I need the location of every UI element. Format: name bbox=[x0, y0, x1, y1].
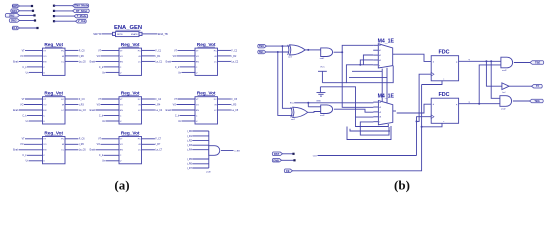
svg-text:t_R0: t_R0 bbox=[187, 130, 193, 133]
net label La_C2 U3 bbox=[231, 61, 238, 63]
svg-text:VO: VO bbox=[20, 144, 24, 146]
wire AND8 input 6 bbox=[192, 158, 209, 160]
svg-text:VO: VO bbox=[97, 104, 101, 106]
caption (a) bbox=[114, 177, 129, 192]
svg-text:e: e bbox=[379, 65, 380, 67]
svg-text:F_C2: F_C2 bbox=[231, 50, 237, 52]
wire input VT U8 bbox=[102, 138, 120, 140]
svg-text:LC: LC bbox=[61, 110, 64, 112]
svg-text:t_R2: t_R2 bbox=[187, 139, 193, 142]
svg-text:EN: EN bbox=[43, 110, 46, 112]
power VCC bbox=[318, 66, 327, 82]
svg-text:FC: FC bbox=[61, 50, 64, 52]
wire input VT U4 bbox=[25, 98, 43, 100]
wire input Enab U2 bbox=[96, 60, 120, 62]
wire XOR1 out bbox=[305, 49, 321, 51]
wire MUX2 s0 loop bbox=[356, 117, 389, 126]
svg-text:VO: VO bbox=[43, 104, 46, 106]
svg-text:LC: LC bbox=[214, 110, 217, 112]
svg-text:TB1: TB1 bbox=[259, 50, 264, 54]
wire input VO U3 bbox=[177, 55, 196, 57]
svg-text:La_C2: La_C2 bbox=[231, 61, 238, 63]
svg-text:F_C7: F_C7 bbox=[155, 139, 161, 141]
net label C_k U5 bbox=[99, 115, 104, 117]
wire input Un U8 bbox=[106, 160, 120, 162]
svg-text:t_R2: t_R2 bbox=[231, 55, 237, 58]
wire from IPAD3 bbox=[20, 14, 35, 16]
wire MUX1 loop box bbox=[346, 65, 393, 83]
svg-text:LC: LC bbox=[138, 110, 141, 112]
wire output La_C4 U5 bbox=[142, 109, 155, 111]
wire branch to BUF bbox=[486, 61, 502, 86]
wire input VT U3 bbox=[178, 49, 196, 51]
net label t_R0 bbox=[187, 130, 193, 133]
component M4_1E U_M2 body bbox=[378, 101, 392, 125]
svg-text:GND: GND bbox=[316, 101, 321, 103]
svg-text:La_C1: La_C1 bbox=[155, 61, 162, 63]
output pin OPAD2 RT_NOut bbox=[73, 9, 90, 13]
svg-text:Reg_Vot: Reg_Vot bbox=[121, 91, 140, 96]
svg-text:(a): (a) bbox=[114, 177, 129, 192]
wire FDC1 Q bbox=[459, 60, 501, 62]
wire input Un U6 bbox=[182, 120, 196, 122]
svg-text:Reg_Vot: Reg_Vot bbox=[121, 130, 140, 135]
net label VT U4 bbox=[22, 99, 26, 101]
net label Enab U4 bbox=[13, 110, 19, 112]
net label t_R6 U7 bbox=[79, 143, 85, 146]
svg-text:Reg_Vot: Reg_Vot bbox=[197, 42, 216, 47]
wire MUX1 bottom port A down bbox=[381, 69, 383, 102]
net label VT U7 bbox=[22, 139, 26, 141]
svg-text:FC: FC bbox=[61, 139, 64, 141]
net terminal square CLK bbox=[36, 27, 38, 29]
svg-text:VO: VO bbox=[120, 104, 123, 106]
wire output t_R7 U8 bbox=[142, 143, 155, 145]
net label Enab U7 bbox=[13, 150, 19, 152]
net label o_BB bbox=[234, 150, 240, 152]
svg-text:o_BB: o_BB bbox=[234, 150, 240, 152]
output pin OPAD1 ENA_Mode bbox=[73, 4, 89, 8]
wire output F_C5 U6 bbox=[218, 98, 231, 100]
input pin IPAD1 SW0 bbox=[12, 4, 19, 8]
svg-text:LC: LC bbox=[138, 61, 141, 63]
wire output F_C7 U8 bbox=[142, 138, 155, 140]
wire TB0 down bbox=[282, 46, 292, 108]
net label F_C3 U4 bbox=[79, 99, 85, 101]
svg-text:VO: VO bbox=[120, 144, 123, 146]
wire input VO U5 bbox=[101, 104, 120, 106]
wire input Enab U7 bbox=[19, 149, 43, 151]
svg-text:V_Out: V_Out bbox=[78, 19, 86, 23]
net label C_k U6 bbox=[175, 115, 180, 117]
wire from IPAD2 bbox=[20, 10, 34, 12]
wire MUX2 inner loop bbox=[350, 129, 390, 131]
wire MUX1 inner B bbox=[349, 77, 387, 79]
component Reg_Vot U8 body bbox=[119, 137, 142, 164]
svg-text:LC: LC bbox=[61, 61, 64, 63]
net label t_R3 bbox=[187, 144, 193, 147]
wire AND8 input 8 bbox=[192, 167, 209, 169]
net label VO U4 bbox=[20, 104, 24, 106]
input pin RST bbox=[272, 152, 282, 156]
component ENA_GEN label bbox=[114, 25, 142, 31]
svg-text:FC: FC bbox=[214, 99, 217, 101]
svg-text:NRTB: NRTB bbox=[117, 34, 123, 36]
net label VT U3 bbox=[174, 50, 178, 52]
svg-text:Enab: Enab bbox=[166, 110, 172, 112]
svg-text:buf: buf bbox=[503, 92, 506, 94]
net label t_R4 bbox=[187, 149, 193, 152]
svg-text:t_R1: t_R1 bbox=[155, 55, 161, 58]
wire TB1 down bbox=[278, 52, 293, 115]
svg-text:Enab: Enab bbox=[166, 61, 172, 63]
svg-text:ENATB: ENATB bbox=[131, 33, 138, 36]
junction MUX1 loop bbox=[359, 64, 361, 66]
svg-text:M4_1E: M4_1E bbox=[378, 94, 395, 100]
net label F_C2 U3 bbox=[231, 50, 237, 52]
Reg_Vot U7 pin names bbox=[43, 139, 64, 163]
wire input Un U4 bbox=[29, 120, 43, 122]
gate AND3 name bbox=[502, 70, 507, 72]
svg-text:LC: LC bbox=[61, 150, 64, 152]
net label t_R3 U4 bbox=[79, 103, 85, 106]
output pin LED2 bbox=[530, 99, 544, 103]
svg-text:t_R7: t_R7 bbox=[155, 143, 161, 146]
svg-text:t_R5: t_R5 bbox=[187, 158, 193, 161]
component Reg_Vot U6 body bbox=[195, 97, 218, 124]
svg-text:SW1: SW1 bbox=[12, 9, 18, 13]
svg-text:RT_NOut: RT_NOut bbox=[76, 9, 87, 13]
input pin TB1 bbox=[258, 50, 266, 54]
gate AND2 bbox=[321, 105, 333, 114]
svg-text:SW7 B: SW7 B bbox=[93, 33, 101, 36]
wire input VT U6 bbox=[178, 98, 196, 100]
wire VCC to MUX1 loop bbox=[322, 82, 346, 84]
net label VT U5 bbox=[98, 99, 102, 101]
component Reg_Vot U5 label bbox=[121, 91, 140, 96]
svg-text:EN: EN bbox=[196, 110, 199, 112]
wire output F_C0 U1 bbox=[65, 49, 78, 51]
net label Enab U6 bbox=[166, 110, 172, 112]
net label t_R7 bbox=[187, 167, 193, 170]
net terminal square EN_B bbox=[293, 159, 295, 161]
junction FDC1 Q branch buf bbox=[485, 60, 487, 62]
svg-text:ENA_Mode: ENA_Mode bbox=[74, 4, 88, 8]
junction FDC2 Q branch bbox=[478, 103, 480, 105]
svg-text:e: e bbox=[379, 122, 380, 124]
svg-text:d3: d3 bbox=[379, 117, 381, 119]
svg-text:t_R6: t_R6 bbox=[187, 163, 193, 166]
component FDC U_F1 label bbox=[438, 50, 449, 56]
svg-text:VCC: VCC bbox=[320, 66, 325, 68]
wire CLK to FDC1 C bbox=[417, 74, 432, 121]
component FDC U_F2 body bbox=[431, 98, 458, 123]
net label VT U2 bbox=[98, 50, 102, 52]
component M4_1E U_M1 label bbox=[378, 38, 395, 44]
junction CE branch FDC2 bbox=[421, 126, 423, 128]
net label q1 bbox=[469, 59, 471, 61]
wire input VT U1 bbox=[25, 49, 43, 51]
wire output t_R6 U7 bbox=[65, 143, 78, 145]
wire CE to FDC2 CLR bbox=[422, 123, 442, 127]
gate AND4 name bbox=[501, 108, 506, 110]
component Reg_Vot U7 body bbox=[43, 137, 66, 164]
wire input Enab U4 bbox=[19, 109, 43, 111]
svg-text:t_R0: t_R0 bbox=[79, 55, 85, 58]
net label CLK bbox=[313, 155, 318, 157]
net label C_k U1 bbox=[22, 67, 27, 69]
wire input C_k U5 bbox=[104, 115, 120, 117]
input pin CE_B bbox=[284, 169, 292, 173]
Reg_Vot U4 pin names bbox=[43, 99, 64, 123]
wire to OPAD4 bbox=[54, 20, 76, 22]
output pin LED1 bbox=[532, 84, 543, 88]
wire into AND2 top bbox=[308, 106, 320, 108]
component Reg_Vot U2 body bbox=[119, 48, 142, 75]
net label Un U7 bbox=[26, 161, 30, 163]
gate AND8 bbox=[209, 146, 220, 156]
svg-text:SW0: SW0 bbox=[12, 4, 18, 8]
net label La_C1 U2 bbox=[155, 61, 162, 63]
wire input Enab U5 bbox=[96, 109, 120, 111]
net label Enab U8 bbox=[90, 150, 96, 152]
wire to OPAD2 bbox=[54, 10, 73, 12]
svg-text:La_C0: La_C0 bbox=[79, 61, 86, 63]
net label Un U2 bbox=[102, 72, 106, 74]
Reg_Vot U5 pin names bbox=[120, 99, 141, 123]
wire output La_C5 U6 bbox=[218, 109, 231, 111]
output pin OPAD4 V_Out bbox=[76, 19, 87, 23]
net terminal square SW0 bbox=[31, 5, 33, 7]
net label Un U8 bbox=[102, 161, 106, 163]
svg-text:FC: FC bbox=[138, 50, 141, 52]
input pin EN_B bbox=[272, 158, 281, 162]
svg-text:Enab: Enab bbox=[13, 61, 19, 63]
Reg_Vot U1 pin names bbox=[43, 50, 64, 74]
svg-text:SW2: SW2 bbox=[9, 13, 15, 17]
wire branch to ANDB bbox=[491, 61, 500, 98]
svg-text:t_R3: t_R3 bbox=[79, 103, 85, 106]
svg-text:TBG: TBG bbox=[534, 99, 539, 103]
svg-text:F_C6: F_C6 bbox=[79, 139, 85, 141]
svg-text:t_R4: t_R4 bbox=[155, 103, 161, 106]
gate BUF1 name bbox=[503, 92, 506, 94]
junction FDC1 Q branch andb bbox=[490, 60, 492, 62]
net terminal square RST bbox=[292, 153, 294, 155]
wire AND8 input 1 bbox=[192, 130, 209, 132]
component Reg_Vot U1 label bbox=[44, 42, 63, 47]
wire from IPAD4 bbox=[20, 20, 36, 22]
svg-text:Enab: Enab bbox=[90, 150, 96, 152]
net label t_R0 U1 bbox=[79, 55, 85, 58]
wire to OPAD3 bbox=[54, 15, 74, 17]
net label Enab U5 bbox=[90, 110, 96, 112]
svg-text:FC: FC bbox=[214, 50, 217, 52]
net label La_C5 U6 bbox=[231, 110, 238, 112]
wire input VO U6 bbox=[177, 104, 196, 106]
component M4_1E U_M2 label bbox=[378, 94, 395, 100]
caption (b) bbox=[394, 178, 410, 193]
net label Un U1 bbox=[26, 72, 30, 74]
svg-text:La_C3: La_C3 bbox=[79, 110, 86, 112]
wire input Enab U8 bbox=[96, 149, 120, 151]
wire input Enab U3 bbox=[172, 60, 196, 62]
junction XOR1 out branch bbox=[307, 49, 309, 51]
net label t_R2 U3 bbox=[231, 55, 237, 58]
junction TB1 branch bbox=[277, 51, 279, 53]
component Reg_Vot U4 label bbox=[44, 91, 63, 96]
net label VO U2 bbox=[97, 56, 101, 58]
input pin IPAD2 SW1 bbox=[11, 9, 20, 13]
svg-text:VO: VO bbox=[43, 144, 46, 146]
svg-text:EN: EN bbox=[43, 61, 46, 63]
wire MUX1 out to FDC1 D bbox=[396, 54, 431, 61]
gate AND4 bottom bbox=[500, 96, 512, 107]
wire FDC2 Q bbox=[459, 103, 500, 105]
wire input VO U8 bbox=[101, 143, 120, 145]
svg-text:F_C1: F_C1 bbox=[155, 50, 161, 52]
net label ENA_TB bbox=[158, 33, 168, 36]
svg-text:EN: EN bbox=[120, 150, 123, 152]
wire output t_R4 U5 bbox=[142, 104, 155, 106]
wire MUX2 s1 loop bbox=[360, 122, 389, 135]
svg-text:VO: VO bbox=[97, 144, 101, 146]
net label Un U6 bbox=[178, 121, 182, 123]
gate XOR2 bbox=[291, 107, 308, 117]
wire input C_k U4 bbox=[27, 115, 43, 117]
net label La_C6 U7 bbox=[79, 150, 86, 152]
svg-text:F_C3: F_C3 bbox=[79, 99, 85, 101]
wire output t_R5 U6 bbox=[218, 104, 231, 106]
net label VT U1 bbox=[22, 50, 26, 52]
net label t_R5 U6 bbox=[231, 103, 237, 106]
svg-text:EN: EN bbox=[120, 110, 123, 112]
wire AND1 out bbox=[334, 51, 343, 53]
wire from IPAD5 bbox=[20, 27, 38, 29]
svg-text:Enab: Enab bbox=[13, 150, 19, 152]
wire input C_k U7 bbox=[27, 154, 43, 156]
svg-text:La_C4: La_C4 bbox=[155, 110, 162, 112]
wire FDC2 Q up to ANDT bbox=[479, 65, 501, 104]
net label t_R6 bbox=[187, 163, 193, 166]
wire CLK horizontal bbox=[318, 155, 417, 157]
svg-text:F_C0: F_C0 bbox=[79, 50, 85, 52]
net label C_k U7 bbox=[22, 155, 27, 157]
wire input VO U1 bbox=[24, 55, 43, 57]
Reg_Vot U6 pin names bbox=[196, 99, 217, 123]
component Reg_Vot U6 label bbox=[197, 91, 216, 96]
svg-text:(b): (b) bbox=[394, 178, 410, 193]
svg-text:EN: EN bbox=[43, 150, 46, 152]
component M4_1E U_M1 body bbox=[378, 44, 392, 68]
net terminal square O4 bbox=[53, 20, 55, 22]
component Reg_Vot U5 body bbox=[119, 97, 142, 124]
net terminal square O3 bbox=[53, 15, 55, 17]
component Reg_Vot U4 body bbox=[43, 97, 66, 124]
gate BUF1 bbox=[502, 83, 509, 90]
output pin LED0 bbox=[530, 61, 544, 65]
wire input C_k U3 bbox=[180, 66, 196, 68]
wire output F_C3 U4 bbox=[65, 98, 78, 100]
net label VO U6 bbox=[173, 104, 177, 106]
svg-text:Reg_Vot: Reg_Vot bbox=[44, 42, 63, 47]
wire CE to FDC1 CLR bbox=[422, 81, 442, 85]
net label C_k U8 bbox=[99, 155, 104, 157]
wire AND3 out bbox=[514, 62, 530, 64]
svg-text:FC: FC bbox=[61, 99, 64, 101]
svg-text:F_C5: F_C5 bbox=[231, 99, 237, 101]
wire output t_R2 U3 bbox=[218, 55, 231, 57]
input pin IPAD3 SW2 bbox=[5, 13, 19, 17]
net terminal square SW3 bbox=[34, 19, 36, 21]
net label Enab U1 bbox=[13, 61, 19, 63]
wire input VO U7 bbox=[24, 143, 43, 145]
wire output La_C2 U3 bbox=[218, 60, 231, 62]
wire output La_C7 U8 bbox=[142, 149, 155, 151]
wire input C_k U8 bbox=[104, 154, 120, 156]
wire AND8 output bbox=[221, 150, 234, 152]
component Reg_Vot U1 body bbox=[43, 48, 66, 75]
svg-text:VO: VO bbox=[173, 104, 177, 106]
net label t_R7 U8 bbox=[155, 143, 161, 146]
M4_1E U_M2 input stubs bbox=[373, 102, 396, 124]
wire output La_C6 U7 bbox=[65, 149, 78, 151]
net label Enab U2 bbox=[90, 61, 96, 63]
net label Un U5 bbox=[102, 121, 106, 123]
wire input Un U2 bbox=[106, 71, 120, 73]
svg-text:LC: LC bbox=[138, 150, 141, 152]
wire ENA_GEN output bbox=[142, 33, 158, 35]
svg-text:VO: VO bbox=[196, 104, 199, 106]
net label La_C4 U5 bbox=[155, 110, 162, 112]
wire AND1 to MUX1 d0 bbox=[342, 45, 373, 52]
gate XOR2 name bbox=[291, 119, 296, 121]
svg-text:d0: d0 bbox=[379, 102, 381, 104]
svg-text:Reg_Vot: Reg_Vot bbox=[44, 91, 63, 96]
component Reg_Vot U7 label bbox=[44, 130, 63, 135]
M4_1E U_M1 input stubs bbox=[373, 45, 396, 67]
input pin TB0 bbox=[258, 44, 267, 48]
net terminal square O2 bbox=[53, 10, 55, 12]
svg-text:t_R1: t_R1 bbox=[187, 135, 193, 138]
junction TB0 branch bbox=[281, 45, 283, 47]
net label t_R1 U2 bbox=[155, 55, 161, 58]
net label F_C5 U6 bbox=[231, 99, 237, 101]
svg-text:La_C6: La_C6 bbox=[79, 150, 86, 152]
wire MUX2 out to FDC2 D bbox=[397, 104, 432, 113]
component FDC U_F1 body bbox=[431, 56, 458, 81]
svg-text:d2: d2 bbox=[379, 112, 381, 114]
svg-text:M4_1E: M4_1E bbox=[378, 38, 395, 44]
wire AND8 input 2 bbox=[192, 135, 209, 137]
net terminal square SW2 bbox=[33, 14, 35, 16]
net label F_C7 U8 bbox=[155, 139, 161, 141]
svg-text:VO: VO bbox=[173, 56, 177, 58]
wire AND1 down to MUX2 d1 bbox=[342, 52, 373, 107]
net label VO U7 bbox=[20, 144, 24, 146]
svg-text:FC: FC bbox=[138, 139, 141, 141]
wire output F_C1 U2 bbox=[142, 49, 155, 51]
wire SW7 to ENA_GEN bbox=[102, 33, 113, 35]
svg-text:VO: VO bbox=[120, 56, 123, 58]
svg-text:Enab: Enab bbox=[13, 110, 19, 112]
ground GND bbox=[316, 87, 325, 103]
net label VO U1 bbox=[20, 56, 24, 58]
wire output F_C4 U5 bbox=[142, 98, 155, 100]
wire AND8 input 7 bbox=[192, 163, 209, 165]
svg-text:VO: VO bbox=[97, 56, 101, 58]
svg-text:EN: EN bbox=[196, 61, 199, 63]
